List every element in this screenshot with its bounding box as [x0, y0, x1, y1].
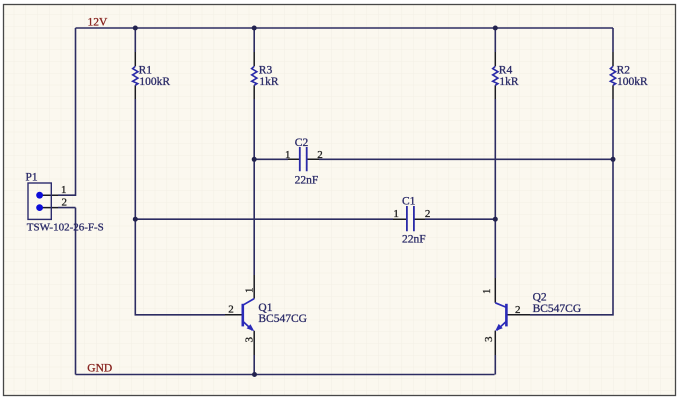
svg-text:C2: C2: [295, 137, 309, 149]
svg-text:1: 1: [393, 208, 399, 220]
svg-text:C1: C1: [402, 195, 416, 207]
svg-text:R3: R3: [259, 65, 273, 77]
svg-text:GND: GND: [87, 363, 112, 375]
svg-text:1kR: 1kR: [499, 76, 519, 88]
svg-text:BC547CG: BC547CG: [533, 303, 582, 315]
svg-text:3: 3: [483, 336, 495, 342]
svg-text:P1: P1: [26, 172, 38, 184]
svg-text:2: 2: [228, 303, 234, 315]
svg-text:BC547CG: BC547CG: [258, 313, 307, 325]
svg-text:100kR: 100kR: [139, 76, 170, 88]
svg-text:R2: R2: [617, 65, 631, 77]
svg-text:12V: 12V: [88, 16, 109, 28]
svg-text:1: 1: [61, 184, 67, 196]
svg-text:2: 2: [317, 149, 323, 161]
svg-text:2: 2: [515, 304, 521, 316]
svg-text:100kR: 100kR: [617, 76, 648, 88]
svg-text:R1: R1: [139, 65, 153, 77]
svg-text:1kR: 1kR: [259, 76, 279, 88]
svg-text:22nF: 22nF: [402, 234, 426, 246]
svg-text:Q2: Q2: [533, 291, 547, 303]
svg-text:1: 1: [285, 149, 291, 161]
svg-text:TSW-102-26-F-S: TSW-102-26-F-S: [27, 222, 104, 234]
svg-text:2: 2: [425, 208, 431, 220]
svg-text:1: 1: [244, 288, 256, 294]
svg-text:R4: R4: [499, 65, 513, 77]
svg-text:3: 3: [244, 337, 256, 343]
svg-text:1: 1: [481, 289, 493, 295]
svg-text:2: 2: [62, 197, 68, 209]
svg-text:22nF: 22nF: [295, 174, 319, 186]
